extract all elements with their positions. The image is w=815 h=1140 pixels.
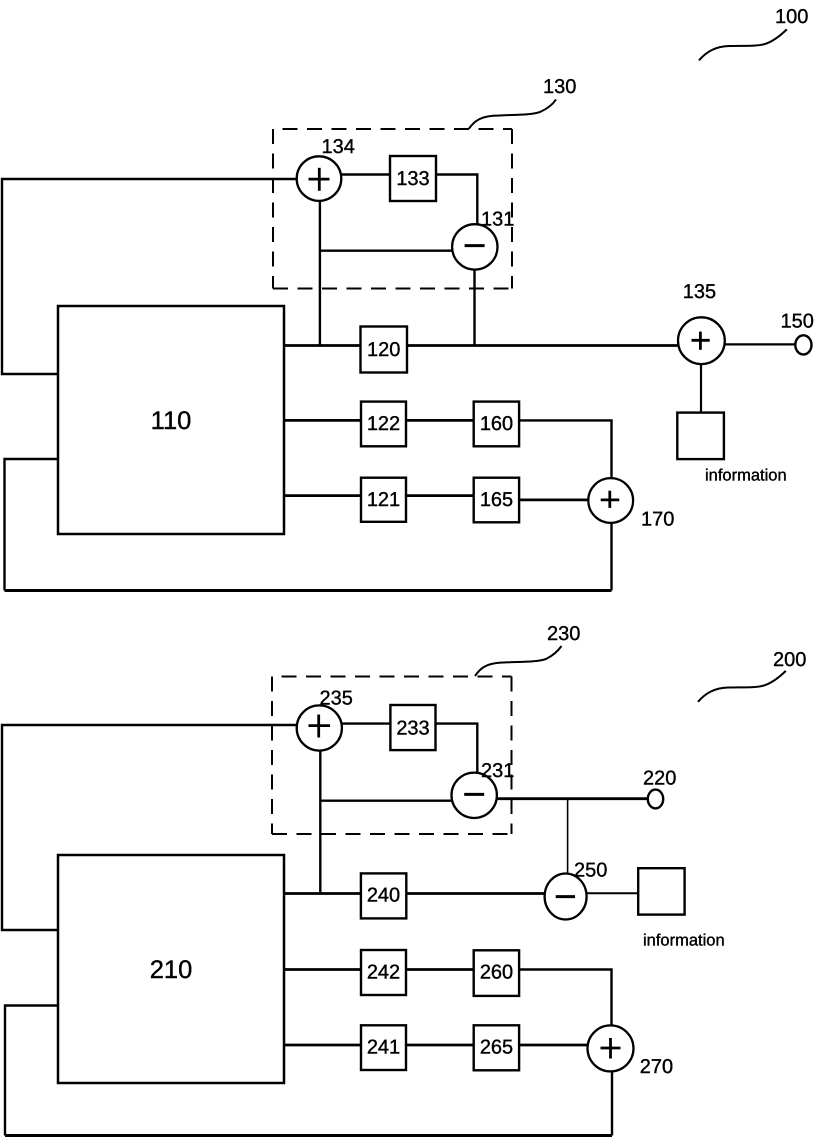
information box (top) [677,413,724,460]
block 121 [361,478,406,522]
wire: block 265 to summer 270 [520,1044,588,1047]
block 120 [361,327,408,373]
svg-text:200: 200 [773,649,806,671]
wire: tap to summer 231 (horizontal inside dashed box) [320,800,452,802]
leader squiggle for 130 [469,100,556,129]
svg-text:150: 150 [781,311,814,333]
information box (bottom) [638,868,684,914]
summer 231 (circle with minus) [452,773,497,818]
wire: block 210 to block 241 [284,1044,361,1047]
wire: summer 170 down to feedback bottom line [610,523,612,591]
svg-text:133: 133 [396,168,429,190]
wire: summer 131 down to main line junction [473,270,475,346]
wire: block 242 to block 260 [406,968,474,971]
svg-text:122: 122 [367,413,400,435]
wire: input loop to summer 134 (left feedback path) [2,179,297,374]
wire: block 110 to block 120 [284,344,361,347]
summer 270 (circle with plus) [588,1025,634,1071]
wire: summer 135 to terminal 150 [725,343,796,345]
wire: input loop to summer 235 (left feedback path) [2,725,297,930]
wire: block 122 to block 160 [406,419,474,422]
svg-text:265: 265 [480,1037,513,1059]
wire: summer 235 to block 233 [342,722,390,724]
wire: summer 235 down to main line junction [319,750,321,893]
wire: tap to summer 131 (horizontal inside dashed box) [320,249,452,251]
summer 131 (circle with minus) [452,224,497,269]
svg-text:160: 160 [480,413,513,435]
block 240 [361,873,406,918]
block 210 (main block) [58,855,284,1083]
wire: block 110 to block 121 [284,494,361,497]
summer 135 (circle with plus) [678,317,725,364]
wire: bottom feedback line (bottom diagram) [5,1134,612,1137]
block 242 [361,950,406,995]
wire: summer 134 down to main line junction [319,201,321,346]
svg-text:110: 110 [151,407,192,435]
block 265 [474,1025,519,1070]
svg-text:270: 270 [640,1056,673,1078]
svg-text:240: 240 [367,885,400,907]
terminal 220 [648,790,663,809]
svg-text:231: 231 [481,760,514,782]
wire: block 233 to summer 231 [436,724,478,774]
svg-text:250: 250 [574,860,607,882]
terminal 150 [795,335,811,354]
wire: block 241 to block 265 [406,1044,474,1047]
summer 134 (circle with plus) [297,156,342,201]
wire: block 120 to summer 135 [407,344,678,347]
wire: block 121 to block 165 [406,494,474,497]
wire: summer 135 down to information box [700,364,702,413]
block 260 [474,950,519,996]
block 233 [390,705,435,750]
svg-text:134: 134 [322,136,355,158]
block 122 [361,402,406,447]
svg-text:242: 242 [367,962,400,984]
svg-text:131: 131 [481,209,514,231]
wire: block 240 to summer 250 [406,892,544,895]
leader squiggle for 230 [475,646,562,676]
wire: feedback return to block 110 [5,459,59,591]
svg-text:130: 130 [543,76,576,98]
block 241 [361,1025,406,1070]
wire: block 110 to block 122 [284,419,361,422]
svg-text:230: 230 [547,623,580,645]
wire: block 260 to summer 270 [520,970,612,1027]
summer 170 (circle with plus) [588,478,633,523]
wire: block 160 to summer 170 [520,420,612,478]
summer 250 (circle with minus) [545,874,587,920]
svg-text:information: information [705,467,787,485]
dashed box 230 [272,677,512,835]
svg-text:120: 120 [367,339,400,361]
wire: summer 270 down to feedback bottom line [611,1071,613,1135]
svg-text:260: 260 [480,962,513,984]
svg-text:information: information [643,931,725,949]
svg-text:121: 121 [367,489,400,511]
svg-text:170: 170 [641,509,674,531]
svg-text:235: 235 [320,688,353,710]
block 110 (main block) [58,306,284,534]
svg-text:135: 135 [683,281,716,303]
wire: block 165 to summer 170 [520,498,589,501]
svg-text:220: 220 [643,767,676,789]
svg-text:165: 165 [480,489,513,511]
leader squiggle for 200 [698,671,786,702]
wire: block 133 to summer 131 [436,175,477,226]
dashed box 130 [273,129,512,289]
block 133 [390,156,436,201]
wire: bottom feedback line (top diagram) [5,589,612,592]
block 160 [474,402,519,447]
wire: feedback return to block 210 [5,1006,58,1136]
svg-text:210: 210 [150,956,193,984]
svg-text:233: 233 [396,718,429,740]
wire: block 210 to block 242 [284,968,361,971]
wire: summer 250 to information box [587,892,639,894]
wire: summer 231 to terminal 220 [497,797,648,800]
wire: junction down to summer 250 [567,799,569,874]
wire: block 210 to block 240 [284,892,361,895]
block 165 [474,478,519,523]
wire: summer 134 to block 133 [341,173,390,175]
summer 235 (circle with plus) [297,705,342,750]
svg-text:241: 241 [367,1037,400,1059]
leader squiggle for 100 [699,29,787,60]
svg-text:100: 100 [775,6,808,28]
